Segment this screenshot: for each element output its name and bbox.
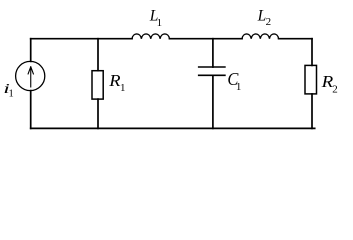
svg-text:1: 1 — [157, 17, 163, 29]
svg-text:1: 1 — [9, 89, 14, 100]
svg-text:1: 1 — [120, 82, 126, 94]
svg-text:R: R — [108, 71, 120, 90]
svg-text:2: 2 — [266, 16, 272, 28]
svg-text:2: 2 — [332, 84, 338, 96]
svg-text:1: 1 — [236, 81, 242, 93]
